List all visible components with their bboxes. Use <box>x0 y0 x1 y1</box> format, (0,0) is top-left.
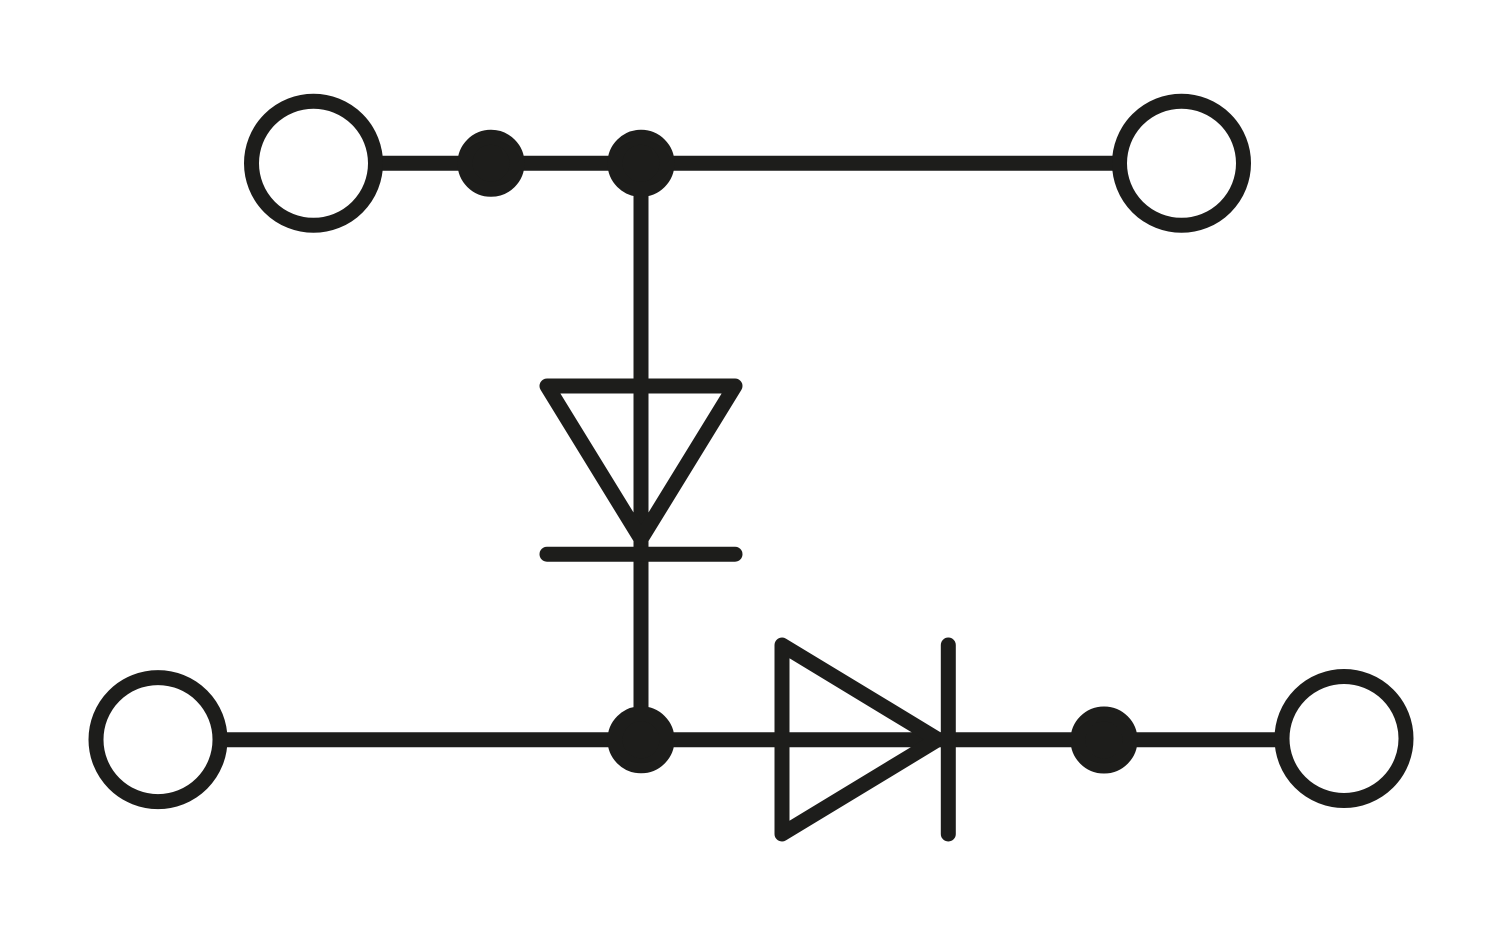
diode D2 triangle (anode left, pointing right) <box>782 645 938 834</box>
terminal circle 2 (top-right clamp point) <box>1120 101 1244 225</box>
wire bottom horizontal bus (terminal 3 to terminal 4) <box>158 732 1344 747</box>
terminal circle 3 (bottom-left clamp point) <box>96 678 220 802</box>
junction dot (top bus, left) <box>465 137 517 189</box>
junction dot (bottom bus, right of D2) <box>1078 714 1130 766</box>
wire top horizontal bus (terminal 1 to terminal 2) <box>314 156 1182 171</box>
wire vertical branch (top bus down to bottom bus through D1) <box>634 163 649 740</box>
diode D1 triangle (anode up, pointing down) <box>547 386 735 539</box>
node junction dot (bottom bus meets vertical branch) <box>615 714 667 766</box>
diode D2 cathode bar <box>941 645 956 834</box>
terminal circle 4 (bottom-right clamp point) <box>1282 677 1406 801</box>
node junction dot (top bus meets vertical branch) <box>615 137 667 189</box>
terminal circle 1 (top-left clamp point) <box>252 101 376 225</box>
diode D1 cathode bar <box>547 547 735 562</box>
